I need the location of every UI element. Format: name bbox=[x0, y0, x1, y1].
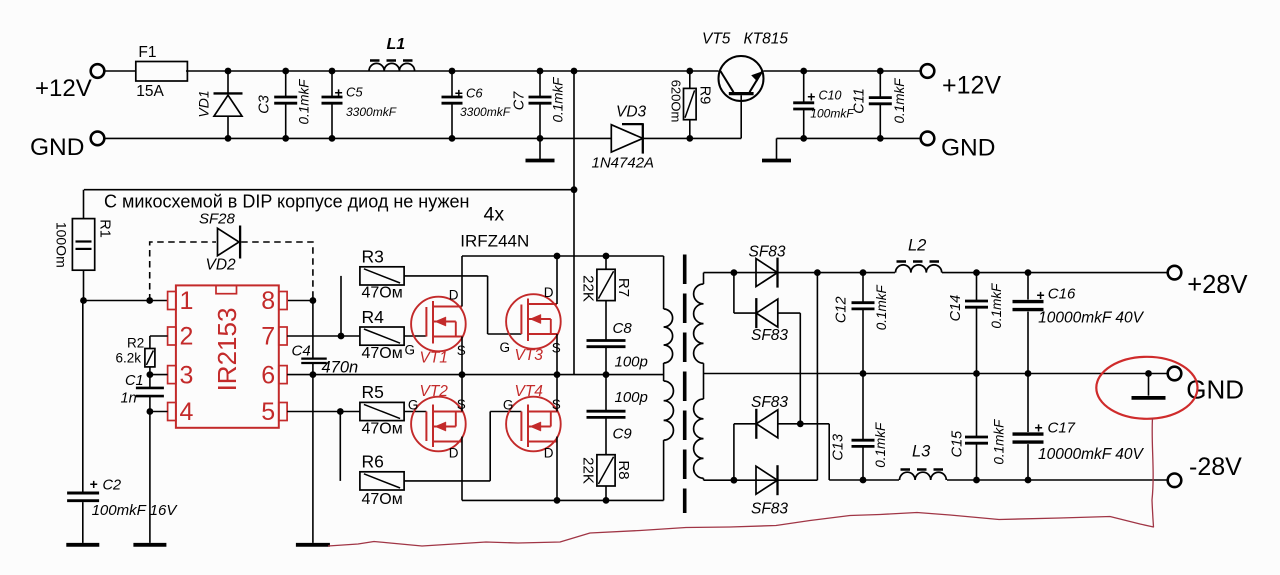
svg-text:5: 5 bbox=[261, 398, 275, 426]
svg-text:C7: C7 bbox=[512, 91, 528, 110]
svg-text:+: + bbox=[455, 85, 463, 101]
svg-text:VT2: VT2 bbox=[420, 383, 449, 400]
svg-text:1N4742A: 1N4742A bbox=[592, 155, 655, 172]
svg-text:S: S bbox=[552, 341, 561, 356]
svg-text:100Om: 100Om bbox=[54, 222, 70, 268]
svg-text:R2: R2 bbox=[127, 336, 144, 351]
svg-text:100mkF: 100mkF bbox=[810, 107, 854, 121]
svg-text:+: + bbox=[90, 476, 98, 492]
svg-text:R3: R3 bbox=[362, 247, 384, 267]
svg-text:F1: F1 bbox=[138, 44, 156, 61]
svg-text:0.1mkF: 0.1mkF bbox=[550, 77, 565, 123]
svg-text:SF28: SF28 bbox=[199, 211, 236, 228]
svg-text:D: D bbox=[449, 446, 459, 461]
svg-text:R5: R5 bbox=[362, 382, 384, 402]
svg-text:47Ом: 47Ом bbox=[362, 491, 403, 508]
svg-text:3300mkF: 3300mkF bbox=[460, 105, 511, 119]
svg-text:VT4: VT4 bbox=[515, 383, 544, 400]
svg-text:47Ом: 47Ом bbox=[362, 285, 403, 302]
svg-text:22K: 22K bbox=[580, 457, 597, 484]
svg-text:0.1mkF: 0.1mkF bbox=[989, 283, 1004, 329]
svg-text:G: G bbox=[405, 343, 416, 358]
svg-text:S: S bbox=[552, 397, 561, 412]
svg-text:-28V: -28V bbox=[1189, 453, 1242, 481]
svg-text:C6: C6 bbox=[466, 85, 483, 100]
svg-text:VT3: VT3 bbox=[515, 347, 544, 364]
svg-text:VD3: VD3 bbox=[616, 104, 647, 121]
svg-text:100mkF 16V: 100mkF 16V bbox=[92, 502, 179, 519]
svg-text:VT1: VT1 bbox=[420, 350, 448, 367]
svg-text:GND: GND bbox=[30, 134, 84, 161]
svg-text:0.1mkF: 0.1mkF bbox=[296, 79, 311, 125]
svg-text:VD2: VD2 bbox=[206, 257, 237, 274]
svg-text:C9: C9 bbox=[613, 426, 633, 443]
svg-text:D: D bbox=[544, 446, 554, 461]
svg-text:4x: 4x bbox=[484, 204, 505, 226]
svg-text:+28V: +28V bbox=[1187, 271, 1247, 299]
svg-text:R1: R1 bbox=[97, 219, 113, 238]
svg-text:VD1: VD1 bbox=[196, 90, 212, 117]
svg-text:R4: R4 bbox=[362, 307, 385, 327]
svg-text:S: S bbox=[457, 397, 466, 412]
svg-text:C8: C8 bbox=[613, 320, 633, 337]
svg-text:22K: 22K bbox=[580, 275, 597, 302]
svg-text:C5: C5 bbox=[346, 85, 363, 100]
svg-text:C10: C10 bbox=[819, 89, 842, 103]
svg-text:R7: R7 bbox=[615, 278, 632, 297]
svg-text:C2: C2 bbox=[103, 478, 122, 494]
svg-text:C17: C17 bbox=[1048, 420, 1076, 437]
svg-text:IR2153: IR2153 bbox=[212, 308, 242, 392]
svg-text:C1: C1 bbox=[125, 373, 144, 389]
svg-text:620Om: 620Om bbox=[669, 80, 684, 123]
svg-text:R8: R8 bbox=[615, 460, 632, 479]
svg-text:GND: GND bbox=[941, 135, 995, 162]
svg-text:L3: L3 bbox=[912, 443, 931, 461]
svg-text:10000mkF 40V: 10000mkF 40V bbox=[1038, 446, 1144, 463]
svg-text:R9: R9 bbox=[697, 86, 713, 105]
svg-text:4: 4 bbox=[180, 398, 194, 426]
svg-text:47Ом: 47Ом bbox=[362, 345, 403, 362]
svg-text:SF83: SF83 bbox=[751, 501, 788, 518]
svg-text:0.1mkF: 0.1mkF bbox=[991, 419, 1006, 465]
svg-text:C14: C14 bbox=[948, 295, 964, 322]
svg-text:S: S bbox=[457, 343, 466, 358]
svg-text:15A: 15A bbox=[136, 83, 164, 100]
svg-text:D: D bbox=[544, 285, 554, 300]
svg-text:+: + bbox=[1035, 420, 1043, 436]
svg-text:+12V: +12V bbox=[35, 75, 92, 102]
svg-text:С микосхемой в DIP корпусе дио: С микосхемой в DIP корпусе диод не нужен bbox=[104, 192, 469, 212]
svg-text:470n: 470n bbox=[322, 359, 359, 377]
svg-text:R6: R6 bbox=[362, 452, 384, 472]
svg-text:C16: C16 bbox=[1048, 286, 1076, 303]
svg-text:+: + bbox=[1037, 287, 1045, 303]
svg-text:7: 7 bbox=[261, 323, 275, 351]
svg-text:6.2k: 6.2k bbox=[116, 351, 142, 366]
svg-text:G: G bbox=[408, 398, 419, 413]
svg-text:100p: 100p bbox=[615, 389, 648, 406]
svg-text:G: G bbox=[503, 398, 514, 413]
svg-text:IRFZ44N: IRFZ44N bbox=[460, 232, 529, 251]
svg-text:C12: C12 bbox=[834, 296, 850, 323]
svg-text:L1: L1 bbox=[387, 36, 406, 53]
svg-text:1n: 1n bbox=[121, 391, 137, 407]
svg-text:1: 1 bbox=[180, 287, 194, 315]
svg-text:0.1mkF: 0.1mkF bbox=[873, 422, 888, 468]
svg-text:C11: C11 bbox=[852, 88, 868, 114]
svg-text:C15: C15 bbox=[950, 430, 966, 458]
svg-text:+12V: +12V bbox=[942, 72, 1001, 100]
svg-text:SF83: SF83 bbox=[751, 327, 788, 344]
svg-text:L2: L2 bbox=[908, 237, 926, 255]
svg-text:47Ом: 47Ом bbox=[362, 421, 403, 438]
svg-text:8: 8 bbox=[261, 287, 275, 315]
svg-text:+: + bbox=[335, 84, 343, 100]
svg-text:3: 3 bbox=[180, 361, 194, 389]
svg-text:D: D bbox=[449, 288, 459, 303]
svg-text:3300mkF: 3300mkF bbox=[346, 105, 397, 119]
svg-text:100p: 100p bbox=[615, 354, 648, 371]
svg-text:КТ815: КТ815 bbox=[744, 31, 789, 48]
svg-text:C13: C13 bbox=[831, 434, 847, 461]
svg-text:6: 6 bbox=[261, 361, 275, 389]
svg-text:SF83: SF83 bbox=[751, 394, 788, 411]
svg-text:C3: C3 bbox=[257, 95, 273, 114]
svg-text:0.1mkF: 0.1mkF bbox=[892, 78, 907, 124]
svg-text:C4: C4 bbox=[292, 343, 311, 360]
svg-text:0.1mkF: 0.1mkF bbox=[874, 285, 889, 331]
svg-text:G: G bbox=[500, 340, 511, 355]
svg-text:VT5: VT5 bbox=[702, 31, 731, 48]
svg-text:2: 2 bbox=[180, 323, 194, 351]
svg-text:+: + bbox=[807, 89, 815, 105]
svg-text:10000mkF 40V: 10000mkF 40V bbox=[1038, 310, 1144, 327]
svg-text:SF83: SF83 bbox=[749, 244, 786, 261]
